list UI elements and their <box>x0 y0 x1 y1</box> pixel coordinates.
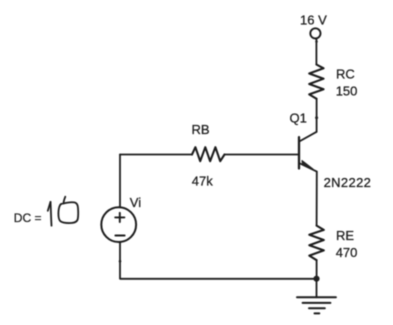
pin dot collector-top <box>315 40 318 43</box>
wire from terminal to RC <box>315 39 317 65</box>
svg-text:Vi: Vi <box>130 195 141 210</box>
wire base right <box>225 154 300 156</box>
svg-text:47k: 47k <box>192 174 213 189</box>
source Vi <box>101 207 136 242</box>
wire left vertical <box>119 155 121 208</box>
svg-text:150: 150 <box>336 84 358 99</box>
svg-text:RC: RC <box>336 67 355 82</box>
wire emitter down <box>316 172 318 226</box>
pin dot source bottom <box>119 260 122 263</box>
resistor RC <box>309 65 323 99</box>
wire RE to junction <box>316 260 318 279</box>
resistor RE <box>309 226 324 261</box>
junction dot <box>313 276 319 282</box>
power terminal V1 16V <box>310 28 320 38</box>
transistor Q1 2N2222 <box>299 132 317 172</box>
svg-text:Q1: Q1 <box>290 111 307 126</box>
ground <box>297 297 336 313</box>
svg-text:RE: RE <box>336 228 354 243</box>
handwritten annotation 10 <box>48 197 78 226</box>
svg-text:470: 470 <box>336 245 358 260</box>
svg-text:RB: RB <box>192 122 210 137</box>
wire source to bottom rail <box>120 242 317 278</box>
wire base <box>120 154 192 156</box>
svg-text:16 V: 16 V <box>300 13 327 28</box>
svg-text:DC =: DC = <box>14 211 42 225</box>
svg-text:2N2222: 2N2222 <box>324 175 372 190</box>
wire RC to collector corner <box>316 99 318 132</box>
pin dot collector <box>315 116 318 119</box>
wire junction to ground <box>316 279 318 298</box>
resistor RB <box>192 147 225 161</box>
